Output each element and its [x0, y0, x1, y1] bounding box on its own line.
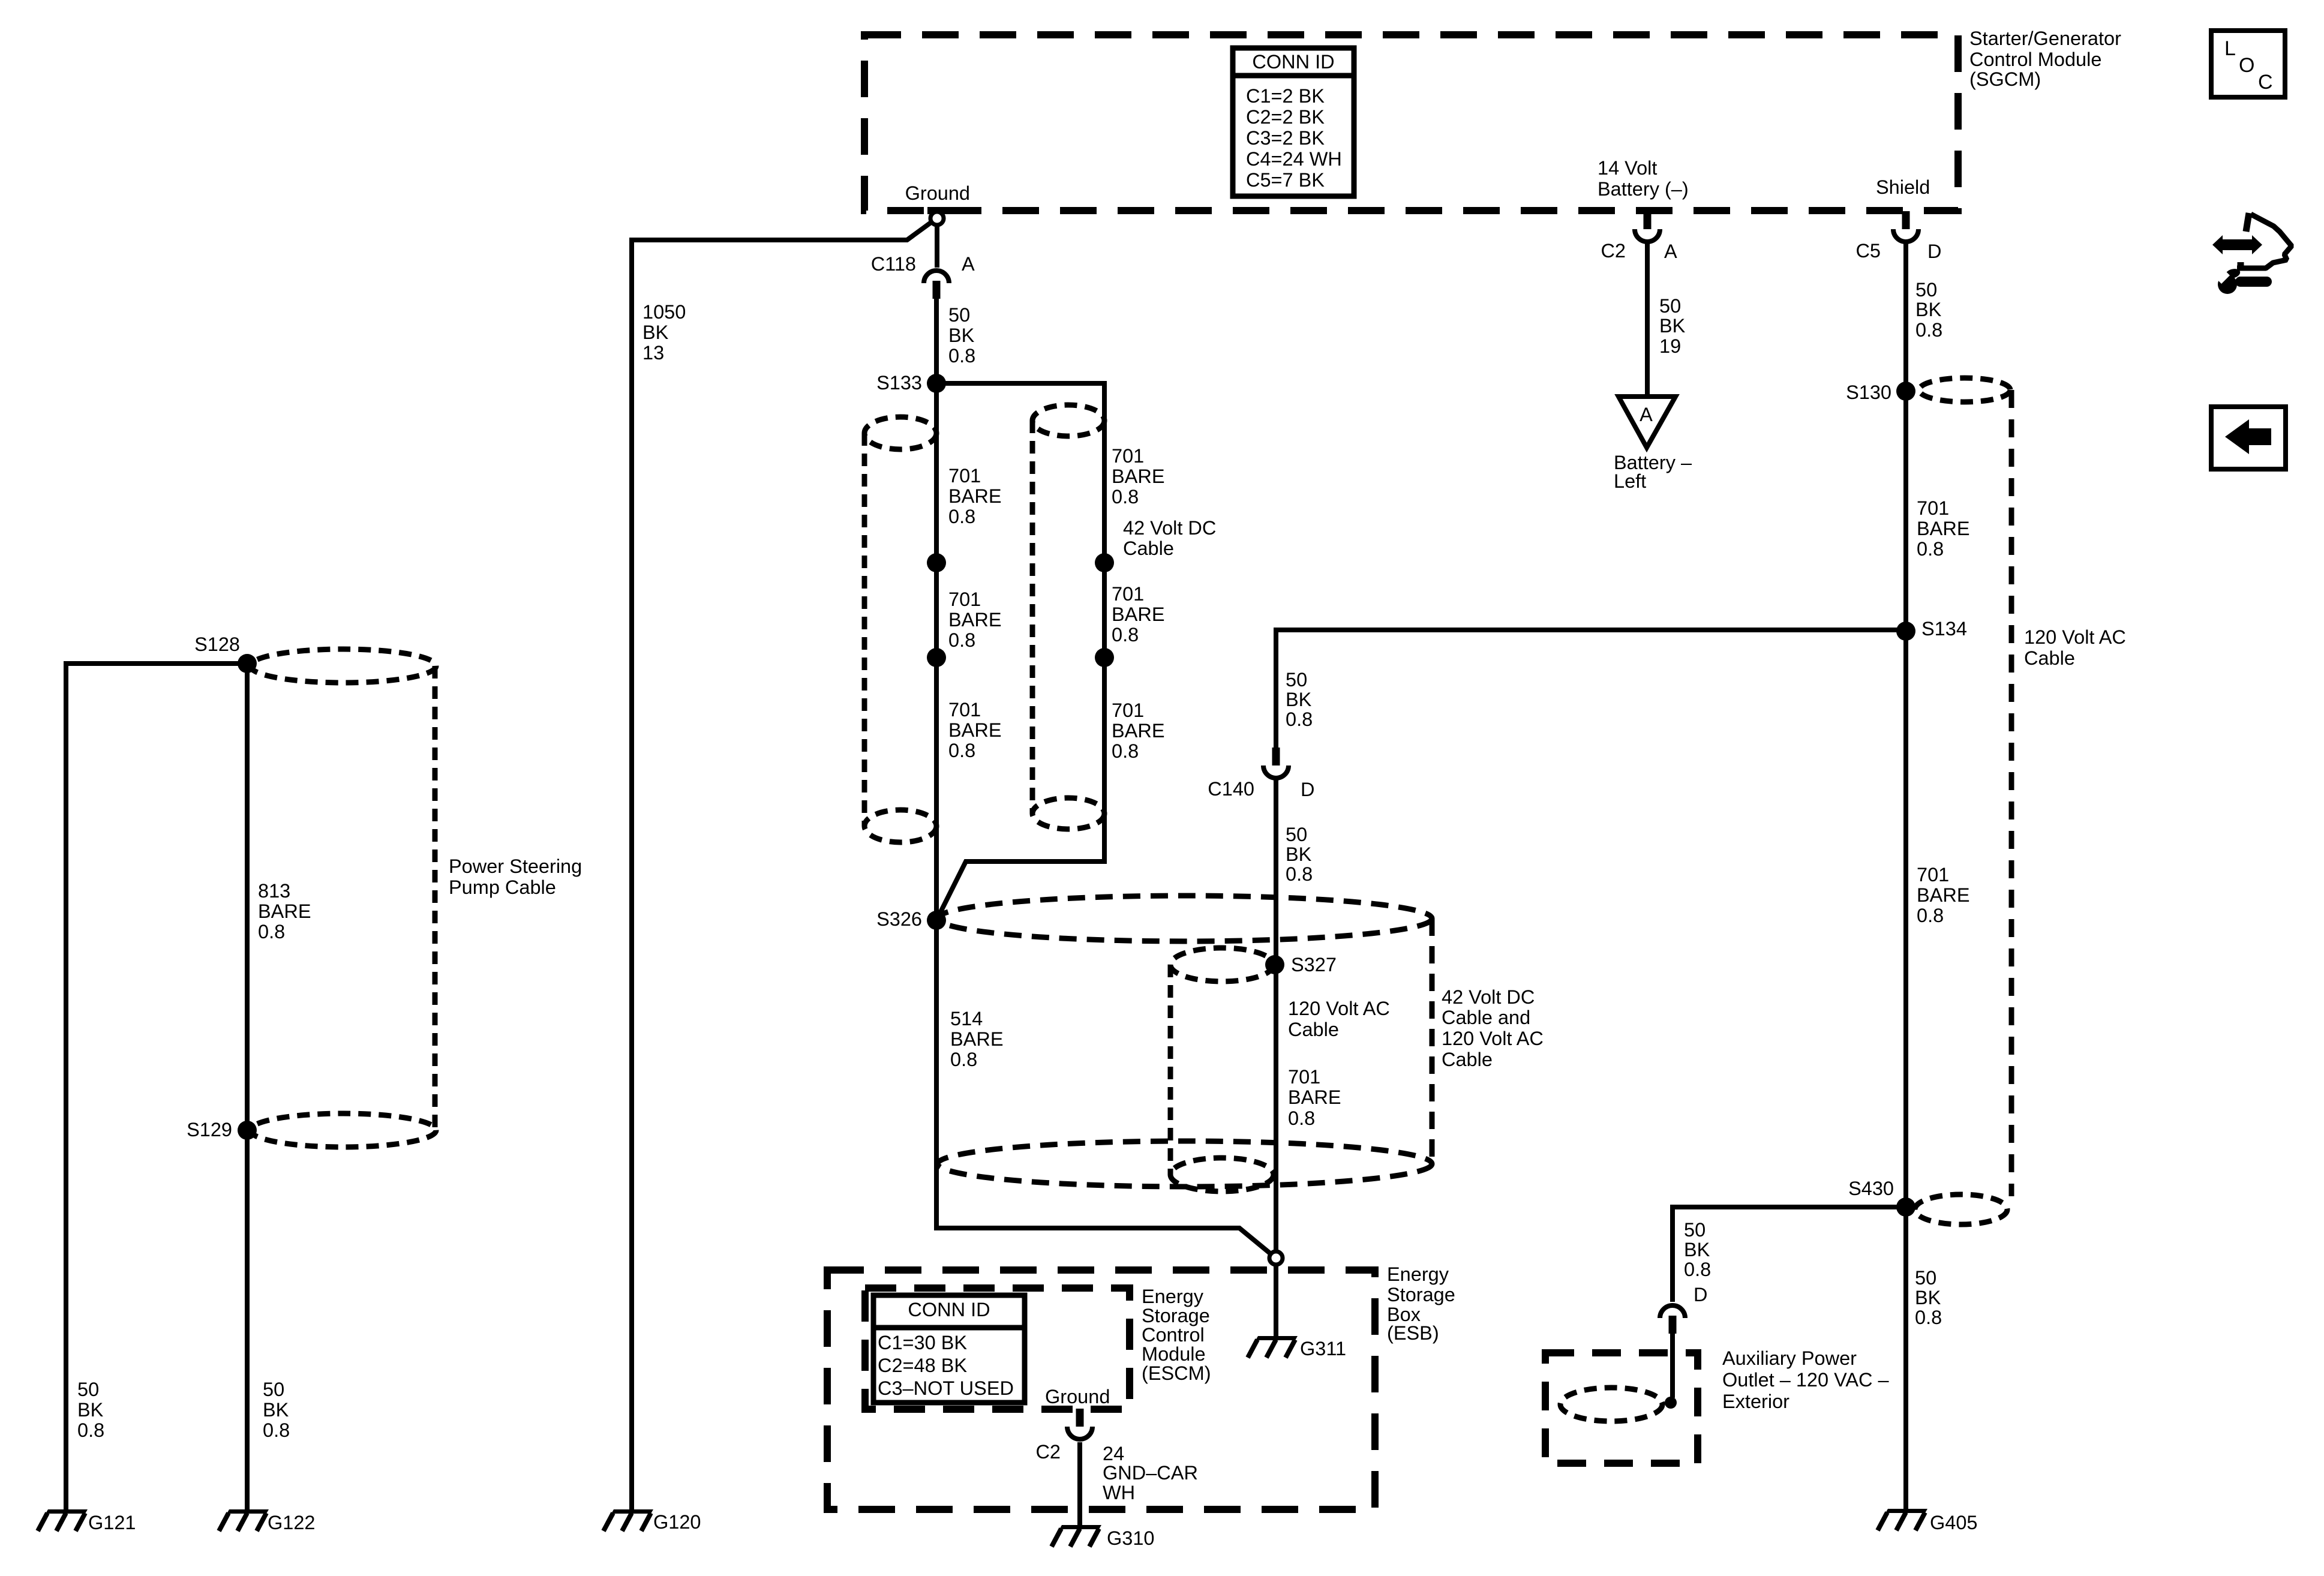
svg-text:Storage: Storage: [1387, 1284, 1455, 1305]
svg-text:701: 701: [948, 589, 981, 610]
svg-text:50: 50: [948, 304, 970, 326]
svg-text:701: 701: [948, 699, 981, 721]
svg-text:0.8: 0.8: [1917, 905, 1944, 926]
svg-text:Left: Left: [1614, 470, 1646, 492]
cable shield right (42V) top ellipse: [1032, 405, 1104, 436]
svg-text:S326: S326: [876, 908, 922, 930]
splice S430: [1896, 1197, 1915, 1217]
svg-text:701: 701: [1917, 497, 1949, 519]
cable shield left (42V) side: [862, 433, 867, 826]
svg-text:0.8: 0.8: [1112, 740, 1139, 762]
wire C2 to battery symbol: [1645, 242, 1650, 397]
svg-text:BK: BK: [1659, 315, 1686, 337]
svg-text:BARE: BARE: [948, 609, 1002, 631]
svg-text:C118: C118: [871, 253, 916, 275]
svg-text:120 Volt AC: 120 Volt AC: [1442, 1028, 1544, 1049]
svg-text:0.8: 0.8: [1112, 624, 1139, 646]
cable shield 120V ellipse at S430: [1915, 1194, 2007, 1224]
component aux outlet dashed box: [1545, 1353, 1698, 1463]
svg-text:BK: BK: [642, 322, 669, 343]
svg-text:C1=30 BK: C1=30 BK: [878, 1332, 967, 1353]
module ESB dashed box: [827, 1270, 1375, 1509]
svg-text:0.8: 0.8: [948, 629, 975, 651]
cable shield left (42V) bottom ellipse: [864, 810, 936, 842]
svg-text:0.8: 0.8: [948, 506, 975, 527]
svg-text:BARE: BARE: [950, 1028, 1004, 1050]
label 50 BK 0.8 (S430 to G405): [1915, 1267, 1942, 1328]
svg-text:L: L: [2224, 37, 2236, 60]
svg-text:G311: G311: [1300, 1338, 1346, 1359]
svg-text:C2=48 BK: C2=48 BK: [878, 1355, 967, 1376]
svg-text:0.8: 0.8: [950, 1049, 977, 1070]
splice dot right upper: [1095, 553, 1114, 572]
svg-text:G122: G122: [268, 1512, 316, 1533]
label 701 BARE 0.8 (below S327): [1288, 1066, 1341, 1129]
label 42 Volt DC Cable: [1123, 517, 1216, 559]
svg-text:G121: G121: [88, 1512, 136, 1533]
label Starter/Generator Control Module (SGCM): [1969, 28, 2121, 90]
svg-text:Shield: Shield: [1876, 176, 1930, 198]
label 701 BARE 0.8 (S134-S430): [1917, 864, 1970, 926]
wire S430 branch to aux outlet connector D: [1673, 1207, 1906, 1302]
battery feed triangle symbol A: [1619, 397, 1676, 448]
svg-text:Storage: Storage: [1142, 1305, 1210, 1326]
ground G120: [603, 1509, 653, 1531]
splice S128: [238, 654, 257, 673]
label 701 BARE 0.8 (S130-S134): [1917, 497, 1970, 560]
wire C140 to S327 to G311 circle: [1274, 780, 1278, 1251]
svg-text:D: D: [1301, 779, 1314, 800]
ground G311: [1248, 1336, 1298, 1358]
svg-text:BARE: BARE: [1112, 604, 1165, 625]
svg-text:BK: BK: [1286, 689, 1312, 710]
label 50 BK 0.8 (below C140): [1286, 824, 1313, 885]
cable shield power steering bottom ellipse: [250, 1113, 436, 1147]
terminal open circle at SGCM Ground: [930, 212, 944, 225]
svg-text:C140: C140: [1208, 778, 1254, 800]
label 701 BARE 0.8 (left seg3): [948, 699, 1002, 761]
wire G311 circle to ground: [1274, 1265, 1278, 1336]
wire G120 leg: from ground circle diagonal, across and down to G120: [632, 222, 932, 1509]
svg-text:50: 50: [1915, 279, 1937, 301]
label Energy Storage Control Module (ESCM): [1142, 1286, 1211, 1384]
label 514 BARE 0.8: [950, 1008, 1004, 1070]
label 24 GND-CAR WH: [1103, 1443, 1198, 1503]
svg-text:0.8: 0.8: [77, 1419, 104, 1441]
connector C2 (ESCM): [1067, 1409, 1092, 1439]
svg-text:S134: S134: [1921, 618, 1967, 640]
svg-text:A: A: [1640, 404, 1653, 425]
module SGCM dashed box: [864, 35, 1958, 211]
svg-text:Ground: Ground: [905, 182, 970, 204]
svg-text:Control Module: Control Module: [1969, 49, 2101, 70]
svg-text:120 Volt AC: 120 Volt AC: [2024, 626, 2126, 648]
svg-text:BARE: BARE: [1917, 518, 1970, 539]
svg-text:BARE: BARE: [258, 900, 311, 922]
label 813 BARE 0.8: [258, 880, 311, 942]
terminal open circle at ESB (G311): [1269, 1251, 1283, 1265]
connector C118: [924, 271, 949, 299]
wire D connector into aux outlet: [1670, 1334, 1675, 1398]
label Battery - Left: [1614, 452, 1692, 492]
label 1050 BK 13: [642, 301, 686, 364]
cable shield small (120V) top ellipse: [1170, 948, 1274, 981]
svg-text:0.8: 0.8: [1286, 709, 1313, 730]
svg-text:701: 701: [1112, 583, 1144, 605]
splice S134: [1896, 622, 1915, 641]
cable shield big bottom ellipse: [938, 1141, 1432, 1187]
svg-text:24: 24: [1103, 1443, 1124, 1464]
CONN ID table (ESCM): [873, 1295, 1025, 1403]
svg-text:S129: S129: [187, 1119, 232, 1140]
label Energy Storage Box (ESB): [1387, 1263, 1455, 1344]
svg-text:Cable: Cable: [1442, 1049, 1493, 1070]
svg-text:WH: WH: [1103, 1482, 1135, 1503]
svg-text:GND–CAR: GND–CAR: [1103, 1462, 1198, 1484]
svg-text:Battery (–): Battery (–): [1598, 178, 1689, 200]
svg-text:Cable: Cable: [1123, 538, 1174, 559]
svg-text:Cable and: Cable and: [1442, 1007, 1530, 1028]
svg-text:50: 50: [77, 1379, 99, 1400]
svg-text:Power Steering: Power Steering: [449, 855, 582, 877]
cable shield 120V ellipse at S130: [1919, 378, 2010, 402]
cable shield small side: [1168, 965, 1173, 1175]
svg-text:(ESCM): (ESCM): [1142, 1362, 1211, 1384]
svg-text:A: A: [962, 253, 975, 275]
svg-text:Energy: Energy: [1387, 1263, 1449, 1285]
svg-text:50: 50: [1286, 669, 1307, 691]
svg-text:0.8: 0.8: [1917, 538, 1944, 560]
cable shield power steering side: [433, 666, 438, 1130]
svg-text:G310: G310: [1107, 1527, 1155, 1549]
svg-text:0.8: 0.8: [1915, 319, 1942, 341]
splice dot left lower: [927, 648, 946, 667]
label 701 BARE 0.8 (right seg3): [1112, 700, 1165, 762]
svg-text:701: 701: [1288, 1066, 1320, 1088]
label 50 BK 0.8 (above C140): [1286, 669, 1313, 730]
wire right leg S133 branch down and into S326: [936, 383, 1104, 920]
splice S327: [1265, 955, 1284, 974]
cable shield small bottom ellipse: [1170, 1158, 1274, 1191]
svg-text:701: 701: [948, 465, 981, 487]
label 701 BARE 0.8 (right seg2): [1112, 583, 1165, 646]
svg-text:S430: S430: [1848, 1178, 1894, 1199]
cable shield left (42V) top ellipse: [864, 417, 936, 449]
svg-text:42 Volt DC: 42 Volt DC: [1442, 986, 1535, 1008]
connector C2 (SGCM): [1635, 211, 1660, 242]
svg-text:0.8: 0.8: [1286, 863, 1313, 885]
icon LOC box: [2211, 31, 2285, 97]
svg-text:G120: G120: [653, 1511, 701, 1533]
svg-text:514: 514: [950, 1008, 983, 1029]
label 120 Volt AC Cable (S327): [1288, 998, 1390, 1040]
wire left leg S133 to S326 and on to G311 circle: [936, 383, 1270, 1253]
svg-text:13: 13: [642, 342, 664, 364]
svg-text:BK: BK: [948, 325, 975, 346]
wire S128 to G121: [66, 664, 247, 1509]
wire C118 to S133: [934, 299, 939, 383]
svg-text:BK: BK: [1286, 843, 1312, 865]
svg-text:C5: C5: [1855, 240, 1881, 262]
cable shield right (42V) side: [1030, 421, 1035, 813]
svg-text:BARE: BARE: [1112, 466, 1165, 487]
svg-text:C1=2 BK: C1=2 BK: [1246, 85, 1325, 107]
svg-text:CONN ID: CONN ID: [908, 1299, 990, 1320]
svg-text:50: 50: [1286, 824, 1307, 845]
splice S133: [927, 374, 946, 393]
svg-text:C3–NOT USED: C3–NOT USED: [878, 1377, 1014, 1399]
svg-text:BK: BK: [1684, 1239, 1710, 1260]
svg-text:0.8: 0.8: [1684, 1259, 1711, 1280]
connector C5 (SGCM): [1893, 211, 1918, 242]
CONN ID table (SGCM): [1233, 48, 1354, 196]
wire S134 branch left and down to C140: [1276, 630, 1906, 748]
svg-text:50: 50: [1684, 1219, 1706, 1241]
splice S130: [1896, 382, 1915, 401]
ground G122: [219, 1509, 269, 1531]
ground G405: [1878, 1509, 1927, 1530]
svg-text:S327: S327: [1291, 954, 1337, 975]
label Power Steering Pump Cable: [449, 855, 582, 898]
svg-text:BARE: BARE: [1917, 884, 1970, 906]
svg-text:14 Volt: 14 Volt: [1598, 157, 1657, 179]
svg-text:1050: 1050: [642, 301, 686, 323]
svg-text:C2: C2: [1601, 240, 1626, 262]
svg-text:S133: S133: [876, 372, 922, 394]
svg-text:Starter/Generator: Starter/Generator: [1969, 28, 2121, 49]
splice dot right lower: [1095, 648, 1114, 667]
cable shield big (42V+120V) top ellipse: [938, 896, 1432, 941]
label 50 BK 0.8 (G122): [263, 1379, 290, 1441]
svg-text:Cable: Cable: [1288, 1019, 1339, 1040]
svg-text:0.8: 0.8: [263, 1419, 290, 1441]
svg-text:0.8: 0.8: [258, 921, 285, 942]
wire C5 down through S130 S134 S430 to G405: [1903, 242, 1908, 1509]
svg-text:42 Volt DC: 42 Volt DC: [1123, 517, 1216, 539]
svg-text:C: C: [2258, 71, 2273, 94]
label 701 BARE 0.8 (right seg1): [1112, 445, 1165, 508]
label 701 BARE 0.8 (left seg2): [948, 589, 1002, 651]
svg-text:701: 701: [1112, 445, 1144, 467]
svg-text:701: 701: [1112, 700, 1144, 721]
label 50 BK 19: [1659, 295, 1686, 357]
svg-text:C3=2 BK: C3=2 BK: [1246, 127, 1325, 149]
svg-text:G405: G405: [1930, 1512, 1978, 1533]
svg-text:A: A: [1664, 241, 1677, 262]
svg-text:813: 813: [258, 880, 290, 902]
svg-text:0.8: 0.8: [1112, 486, 1139, 508]
svg-text:701: 701: [1917, 864, 1949, 885]
connector D (aux outlet): [1660, 1305, 1685, 1334]
svg-text:S130: S130: [1846, 382, 1891, 403]
svg-text:S128: S128: [194, 634, 240, 655]
svg-text:O: O: [2239, 54, 2254, 77]
svg-text:0.8: 0.8: [948, 345, 975, 367]
label 120 Volt AC Cable (right): [2024, 626, 2126, 669]
svg-text:Outlet – 120 VAC –: Outlet – 120 VAC –: [1722, 1369, 1890, 1391]
label 50 BK 0.8 (C118 to S133): [948, 304, 975, 367]
ground G310: [1052, 1525, 1101, 1547]
svg-text:Module: Module: [1142, 1343, 1206, 1365]
cable shield right (42V) bottom ellipse: [1032, 798, 1104, 829]
svg-text:D: D: [1927, 241, 1941, 262]
splice dot left upper: [927, 553, 946, 572]
svg-text:Ground: Ground: [1045, 1386, 1110, 1407]
ground G121: [38, 1509, 88, 1531]
label 50 BK 0.8 (below C5): [1915, 279, 1942, 341]
svg-text:BK: BK: [263, 1399, 289, 1421]
svg-text:Energy: Energy: [1142, 1286, 1204, 1307]
cable shield 120V side: [2009, 390, 2014, 1196]
wire ESCM C2 to G310: [1077, 1442, 1082, 1525]
module ESCM dashed box: [865, 1288, 1130, 1409]
svg-text:CONN ID: CONN ID: [1252, 51, 1334, 73]
svg-text:0.8: 0.8: [1288, 1107, 1315, 1129]
label 701 BARE 0.8 (left seg1): [948, 465, 1002, 527]
svg-text:C2: C2: [1035, 1441, 1061, 1463]
svg-text:BARE: BARE: [948, 485, 1002, 507]
svg-text:19: 19: [1659, 335, 1681, 357]
wire S128 to S129 to G122: [245, 664, 250, 1509]
svg-text:Auxiliary Power: Auxiliary Power: [1722, 1347, 1857, 1369]
svg-text:Exterior: Exterior: [1722, 1391, 1789, 1412]
aux outlet internal ellipse: [1560, 1388, 1662, 1421]
svg-text:Pump Cable: Pump Cable: [449, 876, 556, 898]
svg-text:(SGCM): (SGCM): [1969, 68, 2041, 90]
svg-text:BK: BK: [1915, 299, 1942, 320]
svg-text:C4=24 WH: C4=24 WH: [1246, 148, 1342, 170]
connector C140: [1263, 748, 1289, 778]
svg-text:C5=7 BK: C5=7 BK: [1246, 169, 1325, 191]
icon back-arrow box: [2211, 407, 2286, 469]
svg-text:50: 50: [1659, 295, 1681, 317]
svg-text:BARE: BARE: [1112, 720, 1165, 742]
svg-text:Cable: Cable: [2024, 647, 2075, 669]
terminal dot in aux outlet: [1665, 1397, 1677, 1409]
svg-text:50: 50: [1915, 1267, 1936, 1289]
cable shield big side: [1430, 918, 1435, 1164]
svg-text:BARE: BARE: [948, 719, 1002, 741]
svg-text:0.8: 0.8: [948, 740, 975, 761]
splice S129: [238, 1121, 257, 1140]
cable shield power steering top ellipse: [250, 649, 436, 683]
label Auxiliary Power Outlet - 120 VAC - Exterior: [1722, 1347, 1890, 1412]
label 42 Volt DC Cable and 120 Volt AC Cable: [1442, 986, 1544, 1070]
label 50 BK 0.8 (S430 branch): [1684, 1219, 1711, 1280]
svg-text:BARE: BARE: [1288, 1086, 1341, 1108]
splice S326: [927, 911, 946, 930]
svg-text:50: 50: [263, 1379, 284, 1400]
svg-text:BK: BK: [77, 1399, 104, 1421]
label 50 BK 0.8 (G121): [77, 1379, 104, 1441]
svg-text:C2=2 BK: C2=2 BK: [1246, 106, 1325, 128]
SGCM box border dash behind ground circle: [927, 207, 969, 214]
svg-text:(ESB): (ESB): [1387, 1322, 1439, 1344]
icon vehicle repair (arrow + body + wrench): [2212, 213, 2292, 294]
svg-text:Control: Control: [1142, 1324, 1205, 1346]
wire ground circle to connector C118: [935, 225, 939, 268]
svg-text:0.8: 0.8: [1915, 1307, 1942, 1328]
svg-text:120 Volt AC: 120 Volt AC: [1288, 998, 1390, 1019]
svg-text:D: D: [1694, 1284, 1707, 1305]
label 14 Volt Battery (-): [1598, 157, 1689, 200]
svg-text:BK: BK: [1915, 1287, 1941, 1308]
